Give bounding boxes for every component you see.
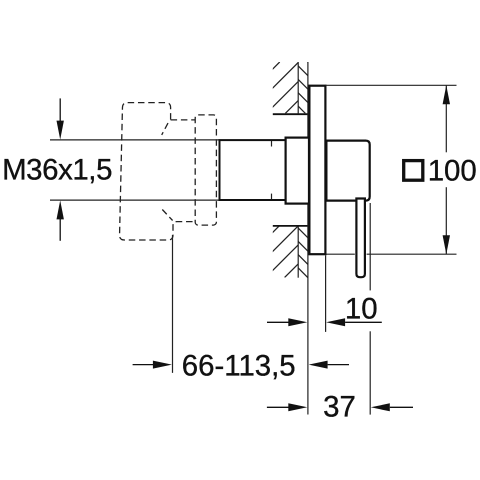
wall hatch bottom plaster band bbox=[256, 226, 360, 278]
svg-text:66-113,5: 66-113,5 bbox=[182, 350, 296, 383]
collar in wall bbox=[286, 138, 309, 204]
wall plaster boundary line top bbox=[297, 62, 299, 113]
wall plaster boundary line bottom bbox=[297, 226, 299, 278]
wall hatch top masonry band bbox=[228, 62, 336, 113]
handle lever bbox=[356, 199, 365, 278]
thread end tick bottom bbox=[271, 194, 273, 200]
svg-text:10: 10 bbox=[345, 292, 378, 325]
svg-text:37: 37 bbox=[323, 391, 356, 424]
thread extension line bottom (M36) bbox=[50, 199, 219, 201]
extension line plate front (for 10) bbox=[325, 255, 327, 332]
dashed flange bbox=[195, 115, 216, 225]
thread end tick top bbox=[271, 141, 273, 147]
dim line 100 upper segment bbox=[445, 85, 447, 152]
svg-text:M36x1,5: M36x1,5 bbox=[2, 153, 112, 186]
wall hatch bottom masonry band bbox=[228, 226, 337, 278]
dim line 100 lower segment bbox=[445, 187, 447, 254]
dashed union nut outline bbox=[120, 103, 196, 240]
arrowhead 100 top bbox=[443, 85, 450, 104]
M36 arrow bottom bbox=[57, 200, 64, 240]
wall finished surface line (also extension line for 10/37/66-113,5) bbox=[307, 62, 309, 415]
square symbol bbox=[404, 161, 423, 181]
escutcheon plate bbox=[309, 86, 325, 255]
dashed chamfer bottom bbox=[162, 210, 172, 221]
dashed chamfer top bbox=[162, 123, 168, 135]
dim 37 right arrow bbox=[371, 403, 413, 411]
wall hatch top plaster band bbox=[254, 62, 359, 113]
thread extension line top (M36) bbox=[50, 139, 219, 141]
extension line bottom (plate bottom edge to 100-dim) bbox=[327, 253, 355, 255]
extension line body front (for 37) lower segment bbox=[369, 331, 371, 414]
wall opening bottom boundary bbox=[273, 225, 308, 227]
extension line left (for 66-113,5) bbox=[172, 235, 174, 373]
dim 10 right arrow bbox=[326, 318, 382, 326]
dashed neck line top bbox=[171, 119, 196, 121]
M36 arrow top bbox=[57, 98, 64, 139]
dim 66-113,5 right arrow bbox=[309, 361, 349, 369]
svg-text:100: 100 bbox=[428, 154, 477, 187]
dim 10 left arrow bbox=[267, 318, 307, 326]
extension line top (plate top edge to 100-dim) bbox=[326, 84, 457, 86]
arrowhead 100 bottom bbox=[443, 235, 450, 254]
threaded stub bbox=[220, 140, 286, 200]
extension line body front (for 37) upper segment bbox=[369, 203, 371, 290]
extension line bottom right part bbox=[367, 253, 457, 255]
valve body bbox=[326, 141, 369, 201]
dim 37 left arrow bbox=[267, 403, 307, 411]
wall opening top boundary bbox=[273, 113, 308, 115]
dim 66-113,5 left arrow bbox=[133, 361, 172, 369]
